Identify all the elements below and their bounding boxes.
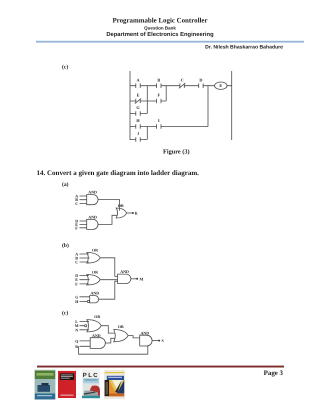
gate diagram (c) [79, 320, 161, 355]
contact A [136, 83, 140, 88]
svg-text:(c): (c) [62, 310, 68, 316]
contact G [136, 111, 140, 116]
svg-text:J: J [137, 131, 139, 136]
svg-text:E: E [219, 83, 222, 88]
contact J [136, 137, 140, 142]
book thumbnail 1 [34, 369, 56, 400]
svg-text:Programmable Logic Controller: Programmable Logic Controller [112, 18, 207, 25]
svg-text:C: C [75, 201, 78, 206]
svg-text:AND: AND [91, 291, 100, 296]
contact H [136, 124, 140, 129]
OR gate U1b [87, 253, 100, 264]
svg-text:OR: OR [94, 314, 100, 319]
wire OR out [127, 212, 133, 214]
OR gate U2b [87, 275, 100, 286]
svg-text:(c): (c) [62, 65, 68, 71]
header blue rule [36, 41, 304, 43]
branch wire rung5 to rung4 [146, 127, 148, 140]
contact F [157, 99, 161, 104]
svg-text:F: F [158, 93, 161, 98]
left power rail [129, 71, 131, 140]
svg-text:D: D [199, 77, 202, 82]
contact B [157, 83, 161, 88]
svg-text:B: B [157, 77, 160, 82]
AND gate U4b final [118, 274, 131, 283]
branch wire rung3 to rung1 [146, 86, 148, 114]
OR gate U3a [116, 208, 126, 218]
wire U4c out [152, 340, 158, 342]
inverter bubble on M [85, 325, 87, 327]
book thumbnail 4 [104, 370, 125, 399]
gate diagram (b) [80, 253, 139, 303]
rung 1 wire [130, 85, 232, 87]
wire U2b out to final AND [100, 279, 117, 281]
input stubs D E F [80, 276, 90, 284]
output node dot [158, 340, 160, 342]
contact D [199, 83, 203, 88]
wire U3b out to final AND [99, 281, 118, 299]
svg-text:OR: OR [118, 324, 124, 329]
wire U1b out to final AND [100, 258, 117, 277]
book thumbnail 3 [82, 369, 100, 398]
ladder diagram figure 3 [130, 71, 232, 142]
wire U2a out to OR [98, 215, 118, 224]
input stubs D E F [80, 221, 87, 228]
svg-text:AND: AND [92, 333, 101, 338]
svg-text:Figure (3): Figure (3) [163, 149, 190, 156]
svg-text:R: R [75, 344, 78, 349]
branch wire rung4 to rung1 [207, 86, 209, 127]
svg-text:PLC: PLC [83, 372, 99, 379]
svg-text:AND: AND [120, 269, 129, 274]
rung 2 wire [130, 100, 166, 102]
rung 5 wire [130, 139, 147, 141]
right power rail [231, 71, 233, 140]
AND gate U4c final [140, 335, 152, 346]
output coil E [215, 82, 227, 89]
svg-text:OR: OR [92, 270, 98, 275]
svg-text:AND: AND [141, 330, 150, 335]
svg-text:14. Convert a given gate diagr: 14. Convert a given gate diagram into la… [37, 169, 200, 177]
svg-text:OR: OR [118, 203, 124, 208]
input stubs A B C [80, 196, 87, 203]
wire U1c out to U2c [101, 326, 114, 333]
svg-text:(b): (b) [62, 243, 69, 249]
output node dot [136, 278, 138, 280]
svg-text:(a): (a) [62, 182, 69, 188]
svg-text:Page 3: Page 3 [264, 370, 284, 377]
rung 4 wire [130, 126, 208, 128]
svg-text:Dr. Nilesh Bhaskarrao Bahadure: Dr. Nilesh Bhaskarrao Bahadure [205, 44, 283, 50]
svg-text:Question Bank: Question Bank [144, 25, 176, 30]
svg-text:AND: AND [88, 190, 97, 195]
svg-text:N: N [75, 327, 78, 332]
svg-text:A: A [136, 77, 139, 82]
rung 3 wire [130, 113, 147, 115]
svg-text:OR: OR [92, 248, 98, 253]
wire U3c out to U2c [105, 338, 114, 343]
input stubs G H [80, 297, 90, 302]
svg-text:C: C [75, 260, 78, 265]
svg-text:C: C [181, 77, 184, 82]
OR gate U2c [114, 330, 128, 342]
book thumbnail 2 [58, 371, 76, 398]
footer red rule [37, 366, 284, 368]
AND gate U1a [87, 195, 98, 205]
AND gate U3b [90, 296, 99, 303]
svg-text:Department of Electronics Engi: Department of Electronics Engineering [106, 31, 214, 38]
input stubs A B C [80, 254, 90, 262]
AND gate U3c [90, 338, 105, 349]
contact C (NC) [179, 83, 185, 88]
input stubs L M N [80, 322, 90, 330]
output node dot [132, 212, 134, 214]
wire U4b out [131, 278, 136, 280]
OR gate U1c [87, 320, 101, 332]
svg-text:AND: AND [88, 215, 97, 220]
inverter bubble on H [87, 300, 89, 302]
svg-text:M: M [140, 276, 144, 281]
branch wire rung2 to rung1 [165, 86, 167, 101]
gate diagram (a) [80, 195, 134, 230]
contact E (NC, rung 2) [135, 98, 141, 103]
svg-text:E: E [137, 93, 140, 98]
wire U2c out to final AND [128, 336, 140, 338]
AND gate U2a [87, 219, 98, 229]
input stubs Q R [80, 341, 91, 346]
svg-text:Q: Q [75, 338, 78, 343]
contact I [157, 124, 161, 129]
wire R branch to final AND [79, 346, 148, 355]
wire U1a out to OR [98, 200, 120, 211]
